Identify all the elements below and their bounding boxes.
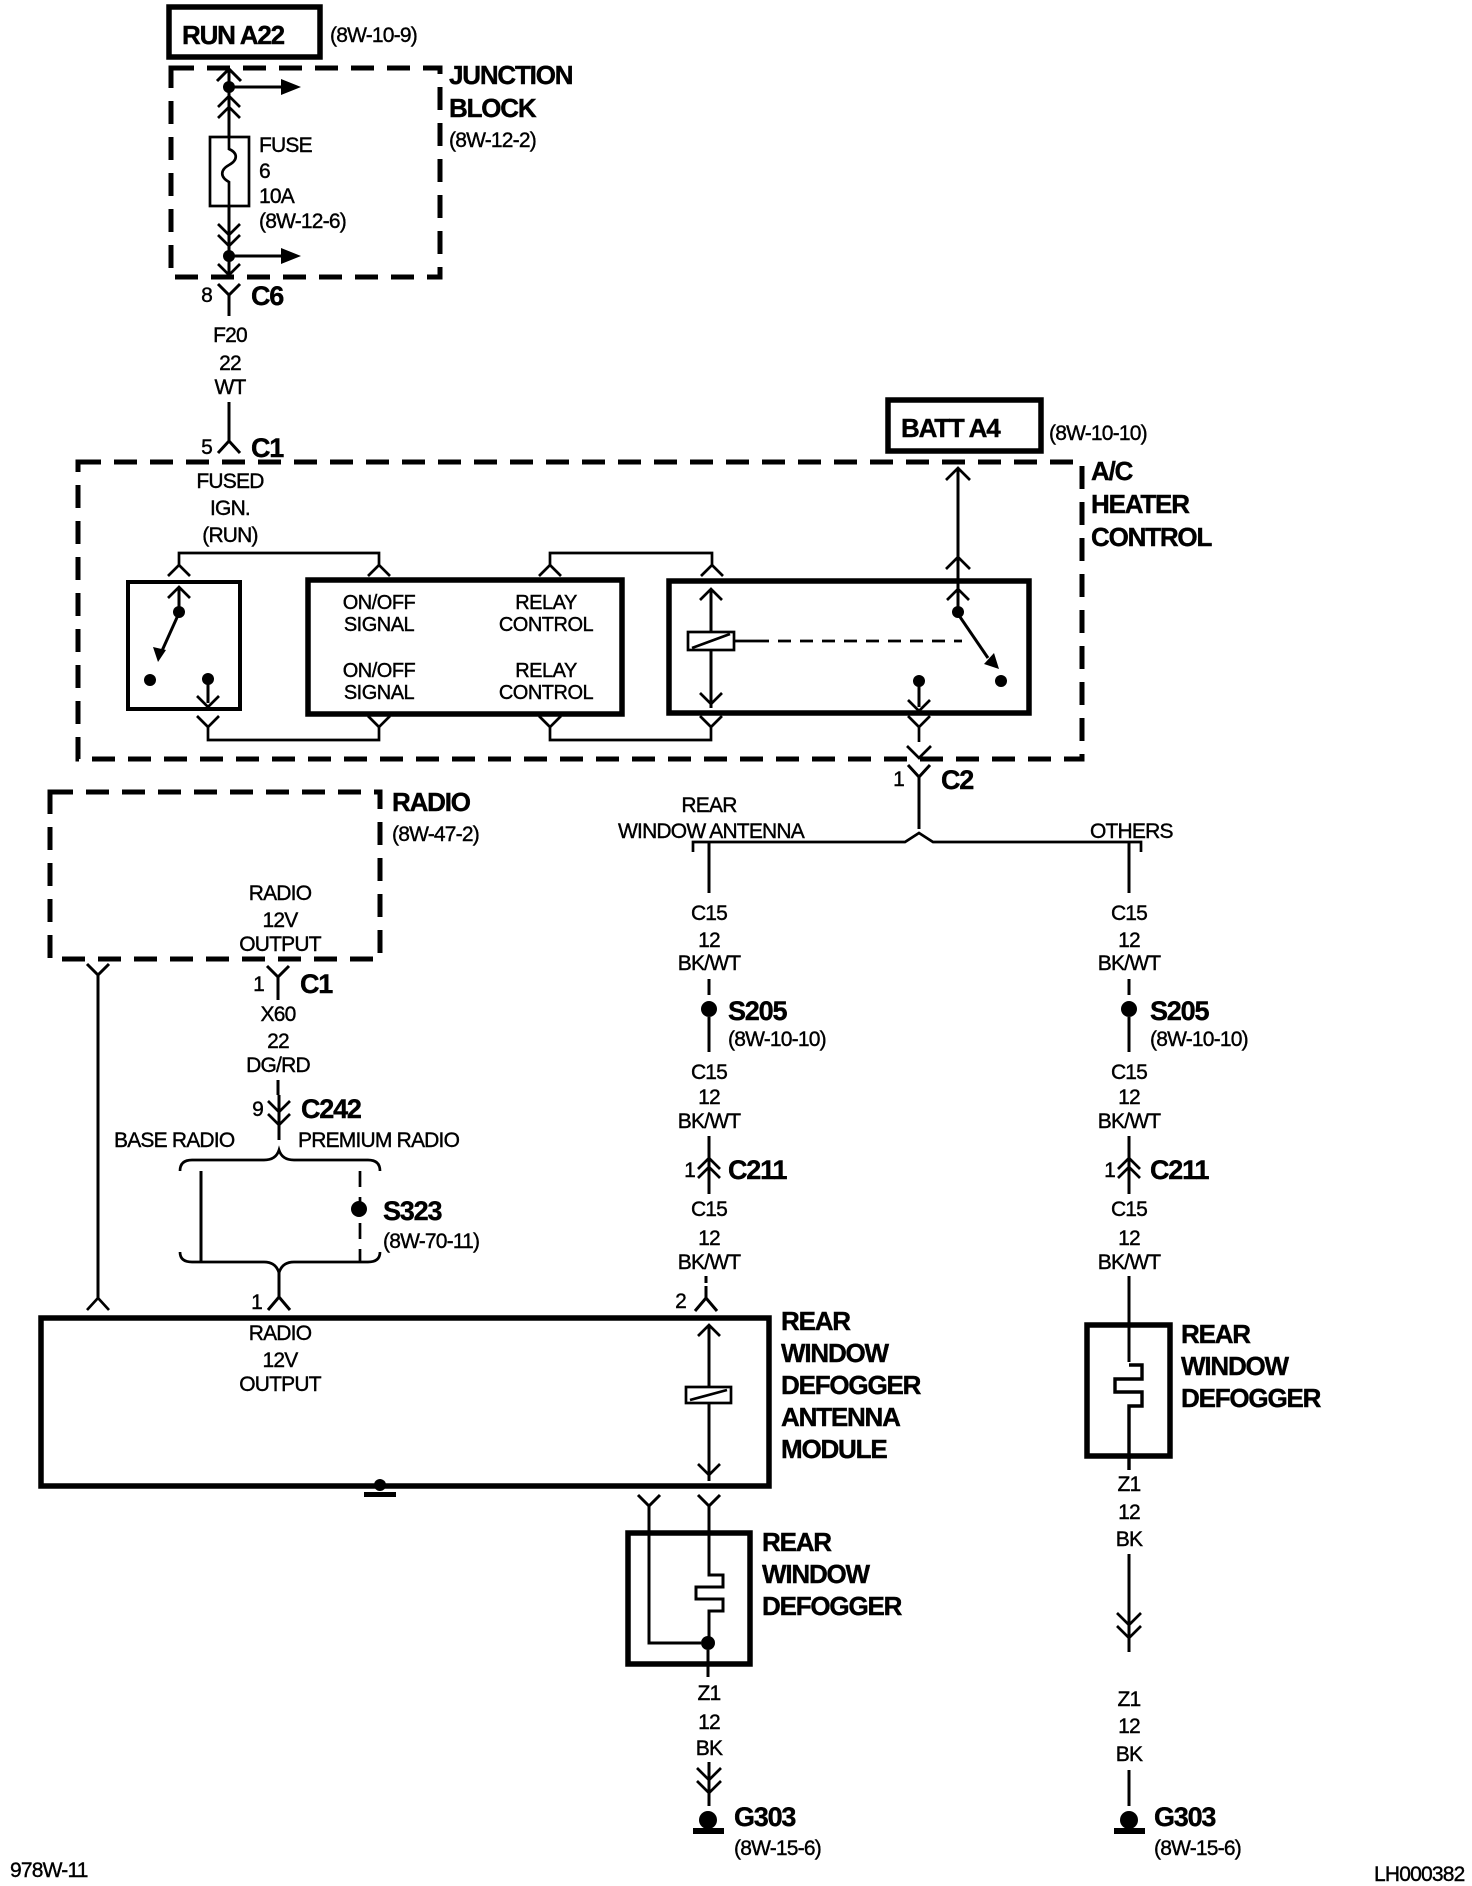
svg-text:BK: BK [696,1737,723,1760]
svg-text:WINDOW: WINDOW [1181,1351,1290,1381]
wire bracket to switch and on/off signal [168,553,390,576]
svg-text:BATT A4: BATT A4 [901,413,1001,443]
radio label [392,787,479,846]
splice S323 [351,1196,479,1253]
connector chevrons below fuse [218,224,240,246]
svg-text:WINDOW ANTENNA: WINDOW ANTENNA [618,820,805,843]
svg-text:1: 1 [1104,1159,1115,1182]
node FUSED IGN (RUN) [196,470,264,547]
svg-text:12: 12 [1118,1227,1140,1250]
svg-text:MODULE: MODULE [781,1434,887,1464]
svg-text:6: 6 [259,160,270,183]
svg-text:REAR: REAR [1181,1319,1251,1349]
wire radio output left branch [87,964,109,1310]
svg-text:BK: BK [1116,1743,1143,1766]
defogger grid element (right) [1115,1365,1142,1470]
switch S1 box [128,582,240,709]
svg-text:1: 1 [893,768,904,791]
svg-text:S205: S205 [728,996,787,1026]
svg-text:(8W-10-10): (8W-10-10) [728,1028,826,1051]
svg-text:ON/OFF: ON/OFF [343,592,416,614]
svg-text:HEATER: HEATER [1091,489,1190,519]
svg-text:RELAY: RELAY [515,660,577,682]
svg-text:RADIO: RADIO [249,1322,312,1345]
svg-text:(8W-10-9): (8W-10-9) [330,24,417,47]
svg-text:(RUN): (RUN) [202,524,257,547]
wire F20 22 WT [213,324,247,428]
svg-text:C1: C1 [300,969,333,999]
junction block box [171,68,440,277]
svg-text:C242: C242 [301,1094,361,1124]
svg-text:CONTROL: CONTROL [499,682,594,704]
junction block label [449,60,573,152]
svg-text:LH000382: LH000382 [1374,1863,1465,1886]
svg-text:C15: C15 [1111,1198,1147,1221]
relay box K1 [669,581,1029,713]
svg-text:Z1: Z1 [1118,1688,1141,1711]
svg-text:REAR: REAR [681,794,737,817]
radio box [50,792,380,959]
connector pin 1 into antenna module [251,1273,290,1314]
rear window defogger label (left) [762,1527,903,1621]
node RADIO 12V OUTPUT (module) [239,1322,322,1396]
svg-text:FUSE: FUSE [259,134,313,157]
antenna module label [781,1306,922,1464]
svg-text:C6: C6 [251,281,284,311]
svg-text:S205: S205 [1150,996,1209,1026]
wire C15 12 BK/WT (right middle) [1098,1061,1161,1144]
svg-text:RUN A22: RUN A22 [182,20,285,50]
svg-text:JUNCTION: JUNCTION [449,60,573,90]
svg-text:12: 12 [1118,1501,1140,1524]
svg-text:(8W-70-11): (8W-70-11) [383,1230,479,1253]
relay coil and contacts K1 [688,589,1007,711]
svg-text:12: 12 [1118,1715,1140,1738]
svg-text:REAR: REAR [781,1306,851,1336]
case ground on module [364,1479,396,1497]
svg-text:G303: G303 [1154,1802,1216,1832]
svg-text:IGN.: IGN. [210,497,250,520]
connector C211 pin 1 (right) [1104,1144,1209,1194]
svg-text:12: 12 [1118,929,1140,952]
wire brace merge (bottom) [180,1252,380,1273]
svg-text:CONTROL: CONTROL [499,614,594,636]
wire premium radio branch [359,1171,362,1262]
svg-text:12V: 12V [263,1349,299,1372]
svg-text:22: 22 [267,1030,289,1053]
wire C15 12 BK/WT (left lower) [678,1198,741,1283]
svg-text:REAR: REAR [762,1527,832,1557]
connector pin 2 into antenna module [675,1286,717,1313]
svg-text:(8W-15-6): (8W-15-6) [1154,1837,1241,1860]
connector C1 pin 5 [201,428,284,463]
ground G303 (left) [693,1802,821,1860]
svg-text:Z1: Z1 [1118,1473,1141,1496]
connector C242 pin 9 [252,1094,361,1140]
svg-text:ON/OFF: ON/OFF [343,660,416,682]
svg-text:X60: X60 [261,1003,296,1026]
svg-text:22: 22 [219,352,241,375]
wire Z1 12 BK (left upper) [696,1682,723,1760]
svg-text:C15: C15 [1111,902,1147,925]
svg-text:(8W-47-2): (8W-47-2) [392,823,479,846]
BATT A4 wire into relay [946,468,970,589]
svg-text:BASE RADIO: BASE RADIO [114,1129,235,1152]
rear window defogger label (right) [1181,1319,1322,1413]
svg-text:C1: C1 [251,433,284,463]
svg-text:C2: C2 [941,765,973,795]
rear window defogger antenna module box [41,1318,769,1486]
connector C2 pin 1 [893,716,973,797]
svg-text:RADIO: RADIO [249,882,312,905]
svg-text:OUTPUT: OUTPUT [239,933,322,956]
svg-text:12: 12 [698,1711,720,1734]
svg-text:1: 1 [684,1159,695,1182]
connector chevrons above fuse [218,96,240,118]
svg-text:BK/WT: BK/WT [678,952,741,975]
svg-text:12: 12 [1118,1086,1140,1109]
svg-text:C15: C15 [691,1198,727,1221]
svg-text:1: 1 [253,973,264,996]
battery feed box BATT A4 [888,400,1041,451]
svg-text:RELAY: RELAY [515,592,577,614]
svg-text:DG/RD: DG/RD [246,1054,310,1077]
svg-text:(8W-10-10): (8W-10-10) [1150,1028,1248,1051]
svg-text:10A: 10A [259,185,295,208]
svg-text:2: 2 [675,1290,686,1313]
A/C heater control label [1091,456,1212,552]
svg-text:CONTROL: CONTROL [1091,522,1212,552]
node junction dot with branch arrow [223,79,301,95]
svg-text:BK/WT: BK/WT [678,1110,741,1133]
svg-text:12: 12 [698,1086,720,1109]
wire C15 12 BK/WT (right upper) [1098,842,1161,995]
svg-text:BK/WT: BK/WT [1098,1110,1161,1133]
svg-text:BK/WT: BK/WT [678,1251,741,1274]
svg-text:S323: S323 [383,1196,442,1226]
control module box U1 [308,580,622,714]
node junction dot with branch arrow [223,248,301,264]
A/C heater control box [78,462,1082,759]
connector C1 pin 1 (radio) [253,966,333,1000]
svg-text:C15: C15 [1111,1061,1147,1084]
svg-text:BK/WT: BK/WT [1098,952,1161,975]
svg-text:8: 8 [201,284,212,307]
svg-text:C15: C15 [691,902,727,925]
wire base radio branch [200,1171,203,1262]
wire module to defogger (left pin) [638,1495,660,1533]
rear window defogger box (right) [1087,1325,1170,1456]
wire Z1 12 BK (right lower) [1116,1688,1143,1806]
wire Z1 12 BK (right upper) [1116,1473,1143,1652]
splice S205 (right) [1121,996,1248,1052]
defogger grid element (left) [649,1533,723,1677]
feed box RUN A22 [169,7,320,57]
wire module to defogger (right pin) [698,1495,720,1533]
svg-text:WINDOW: WINDOW [762,1559,871,1589]
wire split rear window antenna / others [693,833,1141,852]
wire below fuse [228,206,231,277]
svg-text:DEFOGGER: DEFOGGER [781,1370,922,1400]
svg-text:ANTENNA: ANTENNA [781,1402,901,1432]
up arrow to RUN A22 [217,69,241,81]
wire X60 22 DG/RD [246,1003,310,1095]
svg-text:C211: C211 [1150,1155,1209,1185]
svg-text:DEFOGGER: DEFOGGER [762,1591,903,1621]
wire from RUN A22 into junction block [228,69,231,137]
wire C15 12 BK/WT (left upper) [678,842,741,995]
svg-text:(8W-12-6): (8W-12-6) [259,210,346,233]
svg-text:978W-11: 978W-11 [10,1859,88,1882]
svg-text:12V: 12V [263,909,299,932]
svg-text:5: 5 [201,436,212,459]
wire brace split base/premium (top) [180,1150,380,1171]
connector chevrons on Z1 (left) [697,1762,721,1806]
connector C211 pin 1 (left) [684,1144,787,1194]
fuse 6 10A [210,137,249,206]
svg-text:G303: G303 [734,1802,796,1832]
exit chevron [218,264,240,275]
svg-text:9: 9 [252,1098,263,1121]
node RADIO 12V OUTPUT (radio) [239,882,322,956]
ground G303 (right) [1114,1802,1241,1860]
svg-text:BK/WT: BK/WT [1098,1251,1161,1274]
fuse label [259,134,346,233]
wire from C2 to split [918,797,921,829]
svg-text:OUTPUT: OUTPUT [239,1373,322,1396]
svg-text:(8W-12-2): (8W-12-2) [449,129,536,152]
svg-text:(8W-15-6): (8W-15-6) [734,1837,821,1860]
svg-text:C211: C211 [728,1155,787,1185]
svg-text:SIGNAL: SIGNAL [344,614,415,636]
wire C15 12 BK/WT (right lower) [1098,1198,1161,1362]
svg-text:F20: F20 [213,324,247,347]
svg-text:BLOCK: BLOCK [449,93,537,123]
wire C15 12 BK/WT (left middle) [678,1061,741,1144]
wire bracket relay control to relay (bottom) [539,716,722,740]
svg-text:C15: C15 [691,1061,727,1084]
svg-text:WINDOW: WINDOW [781,1338,890,1368]
svg-text:12: 12 [698,1227,720,1250]
svg-text:1: 1 [251,1291,262,1314]
svg-text:Z1: Z1 [698,1682,721,1705]
svg-text:SIGNAL: SIGNAL [344,682,415,704]
relay coil in module [686,1325,731,1481]
svg-text:FUSED: FUSED [196,470,264,493]
svg-text:RADIO: RADIO [392,787,471,817]
wire bracket switch to on/off signal (bottom) [197,716,390,740]
rear window defogger box (left) [628,1533,750,1664]
svg-text:OTHERS: OTHERS [1090,820,1174,843]
svg-text:(8W-10-10): (8W-10-10) [1049,422,1147,445]
svg-text:A/C: A/C [1091,456,1134,486]
svg-text:12: 12 [698,929,720,952]
connector chevrons on Z1 (right) [1117,1613,1141,1638]
svg-text:PREMIUM RADIO: PREMIUM RADIO [298,1129,460,1152]
svg-text:BK: BK [1116,1528,1143,1551]
wire bracket relay control to relay [539,553,723,576]
splice S205 (left) [701,996,826,1052]
node REAR WINDOW ANTENNA [618,794,805,843]
switch S1 [144,587,219,707]
connector C6 pin 8 [201,281,284,316]
svg-text:WT: WT [214,376,246,399]
svg-text:DEFOGGER: DEFOGGER [1181,1383,1322,1413]
